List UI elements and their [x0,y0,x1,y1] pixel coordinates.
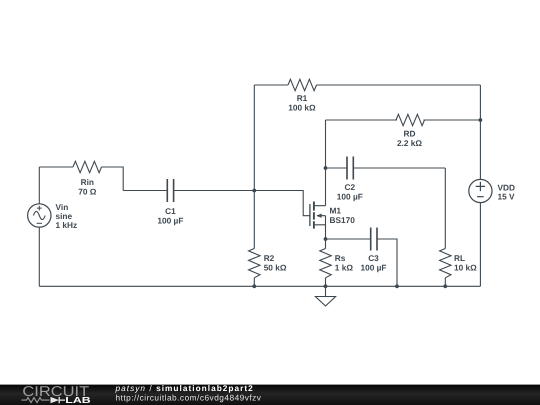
node: C3 ground junction [395,284,399,288]
svg-text:M1: M1 [330,205,342,215]
resistor RL 10k vertical [440,249,451,278]
svg-text:Rin: Rin [81,177,94,187]
logo diode symbol [51,397,60,403]
svg-text:2.2 kΩ: 2.2 kΩ [397,138,422,148]
wire bottom ground rail [39,285,480,287]
node: gate bias junction [252,189,256,193]
svg-text:1 kHz: 1 kHz [56,220,78,230]
resistor RD 2.2k horizontal [396,114,425,125]
wire C1 row to gate of M1 [123,191,309,216]
resistor Rin 70 ohm horizontal [73,161,102,172]
wire Rs leads [325,239,327,286]
wire RL bottom lead [444,278,446,287]
source VDD 15V [469,179,492,202]
wire Vin top vertical [38,167,40,204]
logo waveform resistor zigzag [22,398,50,403]
wire left vertical from top row down to C1 row [253,85,255,191]
wire drain vertical from RD row to M1 drain [325,120,327,206]
svg-text:10 kΩ: 10 kΩ [454,263,477,273]
wire C3 row from source node to rail [326,239,398,286]
svg-text:100 µF: 100 µF [337,191,363,201]
svg-text:1 kΩ: 1 kΩ [335,263,354,273]
node: R2 ground junction [252,284,256,288]
svg-text:100 kΩ: 100 kΩ [288,102,316,112]
node: Rs ground junction [324,284,328,288]
footer bar [0,385,540,405]
svg-text:BS170: BS170 [330,215,356,225]
svg-text:15 V: 15 V [498,191,516,201]
wire C2 row from drain node to RL branch [326,167,446,169]
svg-text:100 µF: 100 µF [157,215,183,225]
svg-text:100 µF: 100 µF [361,262,387,272]
svg-text:RD: RD [404,128,416,138]
svg-text:R2: R2 [264,253,275,263]
svg-text:C2: C2 [344,182,355,192]
svg-text:C3: C3 [368,253,379,263]
wire VDD minus to bottom rail [479,203,481,287]
resistor R1 100k horizontal [288,79,317,90]
node: RD / VDD junction [479,118,483,122]
ground [315,286,335,306]
svg-text:C1: C1 [165,206,176,216]
wire Vin bottom vertical [38,227,40,286]
capacitor C2 100uF [347,157,353,180]
capacitor C3 100uF [371,228,377,251]
svg-text:Rs: Rs [335,253,346,263]
svg-text:http://circuitlab.com/c6vdg484: http://circuitlab.com/c6vdg4849vfzv [116,393,262,403]
wire R2 leads [253,191,255,287]
wire RL branch vertical [444,168,446,249]
svg-text:RL: RL [454,253,465,263]
wire Rin row from Vin to C1 corner [39,167,123,191]
node: RL ground junction [443,284,447,288]
svg-text:LAB: LAB [65,395,90,405]
capacitor C1 100uF [167,179,173,202]
resistor R2 50k vertical [249,249,260,278]
wire top row from R1 corner to right corner [254,84,480,86]
wire right vertical from top row to VDD + [479,85,481,179]
resistor Rs 1k vertical [320,249,331,278]
svg-text:R1: R1 [297,93,308,103]
wire RD row [326,119,481,121]
svg-text:50 kΩ: 50 kΩ [264,263,287,273]
node: source / Rs / C3 junction [324,237,328,241]
node: drain / C2 junction [324,166,328,170]
source Vin sine [28,204,51,227]
svg-text:70 Ω: 70 Ω [78,186,97,196]
transistor M1 BS170 NMOS [310,202,326,240]
